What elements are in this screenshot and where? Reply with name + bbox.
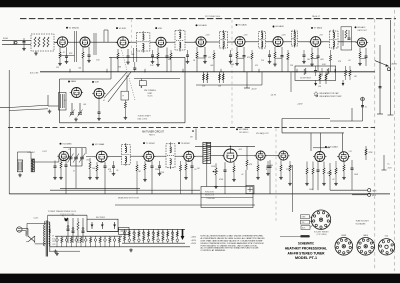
ground for V10 grid	[97, 117, 101, 121]
value text 1Mc	[197, 168, 200, 170]
label V3 6U8	[116, 27, 127, 30]
tube V4 6AU6 first IF amplifier	[194, 37, 207, 47]
wire from alignment point down	[362, 101, 364, 121]
resistor R104	[287, 50, 289, 72]
multiplex takeoff wire vertical	[281, 119, 283, 133]
tube V3 6U8 mixer-oscillator	[116, 37, 130, 48]
B plus decoupling leg 8 (resistor and electrolytic)	[157, 229, 160, 243]
part number bar above title	[280, 235, 310, 237]
AGC chain capacitor	[133, 48, 137, 72]
svg-text:T7 455KC: T7 455KC	[146, 143, 156, 145]
socket diagram B label	[363, 234, 368, 237]
label V16 V17	[256, 132, 269, 135]
ground for oscillator coil	[48, 110, 52, 114]
capacitor C102	[186, 50, 189, 60]
value text 1Md	[335, 170, 338, 172]
tube V15 first audio amplifier	[222, 149, 239, 162]
value text 22K	[290, 65, 294, 67]
svg-text:.001: .001	[83, 104, 86, 106]
label V3B oscillator	[155, 27, 162, 30]
ratio detector transformer T6	[330, 30, 339, 50]
svg-text:INDICATES TEST POINT: INDICATES TEST POINT	[320, 95, 343, 98]
ground for C111	[158, 172, 162, 176]
ground for C104	[268, 60, 272, 64]
svg-text:(TOP VIEW): (TOP VIEW)	[317, 234, 327, 236]
ratio detector network box	[341, 27, 352, 50]
junction stub 7	[296, 69, 297, 73]
wire loop to converter	[17, 152, 59, 162]
heater distribution leg 2	[61, 236, 63, 247]
volume control potentiometer R34	[212, 163, 218, 185]
B plus decoupling leg 6 (resistor and electrolytic)	[147, 229, 150, 243]
svg-text:AM-FM STEREO TUNER: AM-FM STEREO TUNER	[288, 251, 325, 255]
ground inside tuning unit	[74, 118, 78, 122]
resistor R103	[251, 50, 253, 72]
link wire under V4	[197, 57, 205, 59]
socket diagram C label	[385, 236, 388, 238]
detector load resistor R17	[359, 48, 361, 63]
ground for R40	[305, 182, 309, 186]
ground for C102	[186, 60, 190, 64]
tuning unit top wire	[134, 78, 180, 80]
value text 8MF	[289, 166, 292, 168]
power transformer caption	[48, 210, 77, 216]
FM tuning unit enclosure left edge	[59, 79, 61, 123]
wire switch to transformer	[27, 223, 46, 244]
value text .001	[78, 68, 81, 70]
diagonal wire from IF strip to tuning unit A	[104, 72, 127, 98]
AM tuning gang section 1	[68, 148, 74, 166]
FM tuning unit enclosure right edge	[184, 57, 186, 122]
link wire under V7	[312, 57, 318, 59]
B plus voltage text	[191, 237, 197, 246]
svg-text:T8 455KC: T8 455KC	[181, 143, 191, 145]
tube V19 multiplex cathode follower	[337, 152, 350, 162]
heater distribution leg 9	[94, 236, 97, 247]
voltage callout text mid	[271, 94, 277, 96]
FM antenna input coil box L1	[14, 34, 54, 51]
svg-text:V8 6AL5: V8 6AL5	[357, 26, 366, 29]
ground for R31	[95, 176, 99, 180]
svg-text:FUNCTION: FUNCTION	[205, 192, 214, 194]
value text .05c	[116, 170, 118, 172]
AVC capacitor C32	[151, 161, 154, 194]
page fold dashed line mid-low	[275, 128, 277, 222]
output level resistor R19	[345, 66, 357, 80]
power supply ground	[54, 250, 58, 254]
svg-text:90-XX: 90-XX	[148, 96, 154, 98]
grid resistor R3 of V2	[82, 47, 84, 72]
antenna trimmer capacitors	[22, 38, 26, 51]
svg-text:+250V: +250V	[191, 243, 197, 245]
wire T7 to V13	[130, 155, 144, 157]
svg-text:6AB4: 6AB4	[71, 80, 77, 83]
capacitor C105	[303, 50, 306, 60]
tuning capacitor C22 with trimmer arrow	[78, 103, 83, 117]
AM resistor R111	[180, 161, 182, 194]
svg-text:.001: .001	[78, 68, 81, 70]
mixer bypass capacitor C7	[127, 49, 130, 61]
tube V14 AM detector AVC	[182, 151, 195, 161]
B plus bus right edge	[388, 20, 394, 115]
junction stub 6	[258, 69, 259, 73]
svg-text:YEL: YEL	[302, 222, 305, 224]
wire T3 to V5	[228, 41, 235, 43]
IF bypass capacitor C11	[204, 47, 207, 60]
svg-text:MEASURED WITH VTVM: MEASURED WITH VTVM	[118, 196, 139, 199]
wire T8 to V14	[175, 155, 184, 157]
svg-text:TP: TP	[122, 96, 124, 98]
AVC line drop from rail	[261, 72, 263, 85]
page fold dashed line left-mid	[130, 20, 132, 57]
svg-text:6BN8: 6BN8	[341, 235, 346, 237]
output coupling capacitor C35	[269, 160, 272, 194]
tube V12 AM IF amplifier	[95, 151, 109, 162]
value text OSC	[86, 160, 90, 162]
wire into tone box	[245, 170, 247, 187]
antenna feed left margin wire	[0, 107, 9, 109]
svg-text:6.8: 6.8	[64, 100, 66, 102]
socket diagram pointer boxes	[301, 215, 311, 230]
value text .02 under V8	[348, 60, 351, 62]
output cathode resistor R38	[280, 160, 282, 176]
wire V14 to T9	[194, 155, 203, 157]
capacitor C101	[151, 50, 154, 60]
converter AVC capacitor	[54, 161, 57, 177]
label V1 6BQ7A	[66, 26, 79, 29]
wire V5 to T4	[245, 41, 259, 43]
value text 270 under V6	[261, 60, 264, 62]
AM ground label	[42, 151, 48, 153]
bypass capacitor C13	[243, 47, 246, 72]
screen bypass capacitor C2	[65, 47, 68, 60]
cathode follower resistor R44	[343, 161, 345, 176]
svg-text:+105V: +105V	[191, 240, 197, 242]
on-off switch SW1	[26, 229, 35, 242]
svg-text:V15 6AV6: V15 6AV6	[239, 128, 249, 131]
svg-text:6AU6: 6AU6	[363, 234, 368, 237]
dial pointer box	[139, 79, 146, 88]
converter padder capacitor C30	[65, 159, 68, 194]
svg-text:V3 6U8: V3 6U8	[119, 28, 127, 30]
AM IF cathode resistor R31	[96, 162, 98, 176]
svg-text:V18 12AU7: V18 12AU7	[328, 146, 339, 149]
svg-text:V5 6AU6: V5 6AU6	[238, 24, 247, 27]
capacitor C104	[268, 50, 271, 60]
right margin component	[382, 155, 393, 170]
value text 100K under V5	[230, 64, 235, 66]
tube V2 6BQ7A RF amplifier second half	[78, 37, 91, 47]
AM B plus bus	[195, 145, 255, 147]
svg-text:300Ω: 300Ω	[3, 38, 8, 40]
IF transformer T5	[291, 30, 297, 48]
title text SCHEMATIC	[298, 242, 314, 246]
svg-text:.05: .05	[116, 170, 118, 172]
grid coil of V3 to B plus	[104, 30, 108, 42]
ground for R42	[322, 182, 326, 186]
svg-text:6C4: 6C4	[385, 236, 388, 238]
audio coupling capacitor C34	[224, 162, 227, 194]
value text 470Kc	[160, 172, 165, 174]
svg-text:.02: .02	[241, 174, 243, 176]
svg-text:1ST AUDIO: 1ST AUDIO	[239, 131, 249, 134]
ground for V1 cathode	[58, 62, 62, 66]
wire T9 to V15	[211, 155, 224, 157]
silicon rectifier block	[87, 217, 118, 232]
decoupling resistor R21 pair	[218, 72, 224, 87]
AGC line text	[30, 72, 39, 75]
svg-text:DET: DET	[190, 137, 193, 139]
AM IF transformer T7	[121, 143, 130, 166]
value text under V12	[108, 169, 111, 171]
tube socket diagram C	[378, 239, 394, 255]
de-emphasis network box	[295, 66, 336, 80]
ground below bottom rail	[129, 248, 133, 252]
voltage callout AM converter	[68, 149, 72, 151]
value text 6.8K under V7	[322, 64, 326, 66]
wire V7 to T6	[321, 41, 330, 43]
value text 1.5K	[96, 60, 100, 62]
svg-text:V4 6AU6: V4 6AU6	[198, 24, 207, 27]
AM capacitor C111	[158, 161, 161, 172]
value text 0.01 under V4	[208, 57, 211, 59]
svg-text:DIAL CORD: DIAL CORD	[138, 117, 148, 120]
balance control small box	[246, 186, 254, 194]
plate voltage text V5	[243, 35, 248, 37]
junction stub 5	[220, 69, 221, 73]
svg-text:V16 6AQ5 V17: V16 6AQ5 V17	[256, 132, 269, 135]
measured text	[118, 196, 139, 199]
value text 250K	[211, 166, 216, 168]
ground for AGC chain	[124, 116, 128, 120]
cathode link wire	[59, 55, 75, 57]
value text 8 under V16	[266, 169, 267, 171]
connection arrow below network box B	[342, 80, 345, 86]
svg-text:.02: .02	[332, 179, 335, 181]
ground for R38	[279, 176, 283, 180]
detector load resistor R33	[185, 161, 187, 176]
ground for C103	[229, 60, 233, 64]
AM IF transformer T8	[166, 142, 175, 169]
ground for C105	[302, 60, 306, 64]
AM resistor R110	[136, 161, 138, 194]
output jack J2	[368, 193, 377, 197]
value text 1M under V13	[138, 171, 141, 173]
svg-text:MODEL PT-1: MODEL PT-1	[295, 256, 317, 260]
B plus decoupling leg 10 (resistor and electrolytic)	[166, 229, 169, 243]
wire V6 to T5	[283, 41, 291, 43]
multiplex feed bus	[282, 132, 344, 134]
label V15 two lines	[236, 128, 249, 134]
power supply top rail	[48, 215, 87, 220]
AM loop antenna box	[17, 160, 22, 172]
svg-text:V6 6AU6: V6 6AU6	[275, 25, 284, 28]
label V4 6AU6	[196, 24, 208, 27]
svg-text:.01: .01	[194, 169, 197, 171]
wire grid of V10 down	[98, 98, 101, 117]
IF transformer T3	[220, 30, 228, 50]
svg-text:-10.5V: -10.5V	[251, 89, 257, 91]
tone network box	[201, 187, 253, 208]
output cathode resistor R37	[257, 160, 259, 176]
FM tuning unit enclosure top left edge	[60, 57, 112, 79]
part number text	[34, 217, 40, 219]
multiplex feed drop 3	[342, 133, 344, 152]
tube V13 AM second IF	[142, 151, 155, 161]
link wire under V8	[360, 57, 366, 59]
value text 10K under V12	[92, 168, 96, 170]
page margin dashed line far right	[394, 10, 396, 271]
resistor R105	[330, 50, 332, 72]
page fold dashed line right	[374, 19, 376, 271]
diagonal feed wire into tuning unit upper	[9, 105, 48, 107]
output jack J1	[368, 189, 378, 193]
heater distribution leg 10	[99, 236, 101, 247]
heater distribution leg 4	[70, 236, 72, 247]
svg-text:47: 47	[73, 171, 75, 173]
bias rectifier box	[119, 227, 129, 234]
svg-text:.05: .05	[109, 171, 112, 173]
page header text left	[205, 15, 220, 18]
svg-text:.02: .02	[348, 60, 351, 62]
svg-text:TAPE: TAPE	[372, 189, 377, 192]
multiplex resistor R40	[306, 162, 308, 183]
audio bus line	[50, 189, 200, 191]
svg-text:VOLTAGES: VOLTAGES	[356, 222, 367, 225]
label V9	[68, 80, 77, 83]
ground for R32	[143, 178, 147, 182]
plate voltage text V7	[319, 35, 324, 37]
ground bus of FM IF strip	[40, 71, 375, 73]
value text 220K under V13b	[155, 169, 160, 171]
AM antenna label	[28, 151, 36, 154]
AM capacitor C112	[267, 161, 270, 172]
B plus riser from ratio detector	[377, 45, 383, 114]
limiter capacitor C17	[317, 48, 320, 72]
svg-text:.005: .005	[210, 65, 213, 67]
resistor R101	[170, 50, 172, 72]
socket diagram A label	[341, 235, 346, 237]
wire V3B to T2	[166, 41, 175, 43]
svg-text:180: 180	[307, 59, 310, 61]
svg-text:V1 6BQ7A: V1 6BQ7A	[69, 26, 79, 29]
junction stub 2	[106, 69, 107, 73]
junction stub 1	[69, 69, 70, 73]
tube V16 audio output left	[254, 151, 267, 160]
tube socket diagram A	[335, 238, 353, 256]
B plus decoupling leg 5 (resistor and electrolytic)	[142, 229, 145, 243]
heater bus line	[55, 235, 122, 237]
wire T5 to V7	[298, 41, 311, 43]
ground for C110	[112, 172, 116, 176]
ground under antenna box	[34, 52, 38, 56]
svg-text:AGC LINE: AGC LINE	[30, 72, 39, 75]
bypass capacitor C4	[88, 47, 91, 59]
ground for R35	[232, 178, 236, 182]
wire V4 to T3	[206, 41, 220, 43]
value text 220c	[270, 165, 273, 167]
diagonal wire from IF strip to tuning unit B	[108, 72, 131, 102]
fuse star symbol	[62, 216, 68, 222]
B plus riser mid	[290, 72, 292, 92]
ground for C2	[65, 60, 69, 64]
tube V1 6BQ7A RF amplifier	[56, 37, 70, 47]
cathode resistor R1 of V1	[59, 47, 61, 62]
ground for AVC cap	[53, 176, 57, 180]
resistor pair under rail at limiter	[318, 72, 327, 88]
value text 47K near R36	[249, 164, 253, 166]
svg-text:SCHEMATIC: SCHEMATIC	[298, 242, 314, 246]
winding voltage text stack	[52, 236, 57, 246]
svg-text:220: 220	[270, 165, 273, 167]
wire T6 to detector	[338, 41, 357, 43]
ground for C112	[266, 172, 270, 176]
filter capacitor C52	[82, 218, 85, 243]
label T8	[178, 142, 191, 145]
svg-text:.005: .005	[320, 59, 324, 61]
B plus decoupling leg 2 (resistor and electrolytic)	[128, 229, 131, 243]
multiplex resistor R42	[323, 162, 325, 183]
AM ground rail partial	[60, 187, 140, 189]
FM unit value .001	[83, 104, 86, 106]
value text 47 gang	[73, 171, 75, 173]
ground for R15	[310, 63, 314, 67]
FM unit value 47	[103, 100, 105, 102]
fuse F1	[26, 236, 35, 243]
svg-text:POWER TRANSFORMER 54-XX: POWER TRANSFORMER 54-XX	[48, 210, 77, 213]
heater distribution leg 13	[113, 236, 116, 247]
multiplex takeoff wire horizontal	[282, 118, 330, 120]
tuning capacitor C21 with trimmer arrow	[70, 103, 75, 117]
AM detector transformer T9	[203, 142, 211, 163]
svg-text:PICTORIAL 590-4: PICTORIAL 590-4	[205, 15, 220, 18]
detector output riser	[190, 129, 196, 141]
svg-text:HEATHKIT PROFESSIONAL: HEATHKIT PROFESSIONAL	[285, 247, 328, 251]
svg-text:47: 47	[103, 100, 105, 102]
capacitor C103	[229, 50, 232, 60]
IF transformer T4	[259, 30, 266, 50]
first audio cathode resistor R35	[233, 162, 235, 178]
multiplex resistor R45	[334, 161, 338, 186]
coupling capacitor C41	[351, 160, 354, 190]
value text 1K under V4	[193, 60, 196, 62]
B plus decoupling leg 12 (resistor and electrolytic)	[176, 229, 179, 243]
value text 47 under V1	[63, 52, 65, 54]
IF decoupling resistor R9	[196, 47, 198, 72]
label V8 6AL5	[355, 26, 367, 29]
limiter grid resistor R15	[311, 48, 313, 63]
ground for R7	[156, 63, 160, 67]
svg-text:220: 220	[56, 67, 59, 69]
value text .02c	[241, 174, 243, 176]
AM tuner circuit caption	[142, 131, 165, 137]
value text 100Kd	[354, 174, 359, 176]
heater distribution leg 8	[90, 236, 92, 247]
wire V13 to T8	[154, 155, 166, 157]
tube V6 6AU6 third IF amplifier	[271, 37, 284, 47]
tube V5 6AU6 second IF amplifier	[233, 37, 246, 47]
ground under loop antenna	[18, 173, 22, 177]
plate voltage text V4	[205, 35, 210, 37]
wire V12 to T7	[86, 156, 121, 158]
AM tuning gang section 2	[73, 148, 79, 166]
wire T1 to V3A	[129, 41, 137, 43]
AVC line horizontal	[196, 84, 262, 86]
heater distribution leg 14	[118, 236, 120, 247]
de-emphasis network R18 C19	[365, 48, 368, 66]
connection arrow below network box A	[314, 80, 317, 86]
audio takeoff jack	[387, 63, 397, 71]
